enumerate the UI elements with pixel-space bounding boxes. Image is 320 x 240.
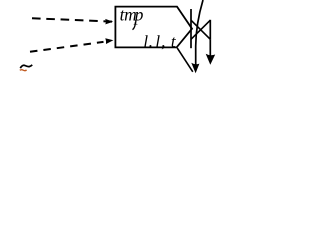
red squiggle under tilde <box>20 69 27 72</box>
arrowhead of lower input arrow <box>105 38 113 44</box>
box: pentagon buffer symbol <box>115 7 192 48</box>
svg-text:tmp: tmp <box>120 4 144 24</box>
wire: diagonal from box bottom corner to output arrow <box>177 48 193 72</box>
valve bowtie X <box>191 20 210 39</box>
wire: upper dashed input arrow <box>32 18 112 21</box>
arrowhead of upper input arrow <box>105 19 113 25</box>
arrowhead of left output arrow <box>191 63 199 74</box>
wire: long curved line through valve down to left output arrow <box>196 0 203 65</box>
valve right bar <box>209 20 211 40</box>
descender tail of p in tmp <box>133 22 136 29</box>
valve left bar <box>190 9 192 48</box>
wire: right output arrow from valve <box>209 39 211 56</box>
tilde character <box>20 65 32 68</box>
arrowhead of right output arrow <box>206 54 216 65</box>
wire: lower dashed input arrow <box>30 42 104 52</box>
